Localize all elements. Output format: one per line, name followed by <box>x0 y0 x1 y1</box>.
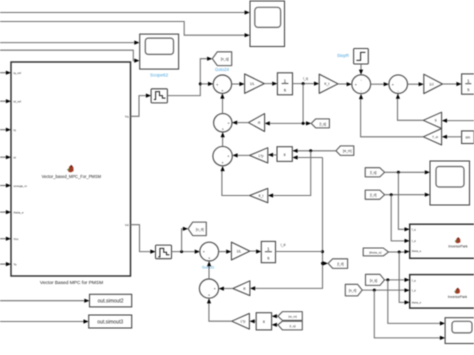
sum 3 (q axis) <box>213 146 232 165</box>
stair generator block (q axis) <box>151 89 167 103</box>
scope Scope (top right) <box>250 1 285 47</box>
wire product to Lp gain <box>268 153 277 157</box>
gain R (q axis) <box>248 114 264 132</box>
svg-text:1/L: 1/L <box>236 250 241 254</box>
svg-text:Vector_based_MPC_For_PMSM: Vector_based_MPC_For_PMSM <box>42 174 102 179</box>
port 6 theta_e <box>0 210 24 214</box>
svg-text:[u_d]: [u_d] <box>349 289 356 293</box>
wire R gain to sum2 <box>232 121 248 125</box>
svg-text:Goto24: Goto24 <box>215 67 230 72</box>
wire node up to goto [u_d] <box>182 227 189 252</box>
from tag [u_d] <box>345 284 362 296</box>
from tag [i_q] (d axis) <box>278 321 302 330</box>
wire i_q d to product <box>272 323 278 327</box>
svg-text:theta_e: theta_e <box>412 249 422 253</box>
port 7 Vcc <box>0 237 19 241</box>
svg-text:1/J: 1/J <box>429 82 434 86</box>
wire i_d output to trunk <box>276 243 323 251</box>
svg-text:InversePark: InversePark <box>448 295 467 299</box>
svg-text:id: id <box>14 156 17 160</box>
gain 1/L (d axis) <box>231 242 249 260</box>
goto tag [u_d] left <box>188 222 206 236</box>
wire u_d to InversePark2 f_d with node <box>362 288 410 292</box>
integrator 1/s (q axis) <box>277 73 292 95</box>
stair generator block (d axis) <box>156 245 172 259</box>
gain K_t torque <box>319 74 338 93</box>
scope voltages (bottom right) <box>445 318 474 344</box>
svg-text:omega_m: omega_m <box>14 184 28 188</box>
matlab icon inside MPC block <box>67 165 74 173</box>
wire theta_e to InversePark1 with node <box>389 250 410 254</box>
wire to Scope top input1 <box>0 10 250 14</box>
svg-text:f_q: f_q <box>412 228 417 232</box>
gain L*p (d axis) <box>232 313 250 329</box>
wire sum to gain 1/L q <box>232 82 245 86</box>
product block x (q axis) <box>277 147 292 162</box>
wire mech sum2 to gain 1/J <box>408 82 424 86</box>
wire i_q down to R gain and goto <box>265 84 312 126</box>
junction node on vq line <box>199 82 213 86</box>
sum 2 (d axis) <box>199 279 218 298</box>
subsystem InversePark1 <box>410 224 474 258</box>
goto tag Goto24 [u_q] <box>212 52 231 72</box>
wire stair to node and up to Goto24 <box>167 57 212 96</box>
svg-text:i_d: i_d <box>280 243 285 247</box>
wire u_q down to bottom scope <box>388 280 445 326</box>
svg-text:T_di: T_di <box>432 135 438 139</box>
wire R d to sum d2 <box>219 287 233 291</box>
svg-text:InversePark: InversePark <box>448 245 467 249</box>
from tag [w_m] (q axis) <box>336 146 354 156</box>
svg-text:f_d: f_d <box>412 239 417 243</box>
step block StepR <box>337 49 368 65</box>
gain 1/J <box>424 74 443 93</box>
wire w_m node down to K_t emf gain <box>268 151 311 198</box>
svg-text:K_t: K_t <box>259 194 264 198</box>
from tag [i_d] right <box>365 190 384 199</box>
svg-text:1/L: 1/L <box>250 82 255 86</box>
svg-text:[i_q]: [i_q] <box>290 324 296 328</box>
port 2 id_ref <box>0 99 21 103</box>
svg-text:theta_e: theta_e <box>412 301 422 305</box>
wire product d to Lp d <box>250 319 257 323</box>
svg-text:StepR: StepR <box>337 53 349 58</box>
output port Vd label <box>125 223 129 227</box>
goto tag [i_d] <box>328 259 348 269</box>
wire w_m d to product <box>272 314 278 318</box>
svg-text:out.simout2: out.simout2 <box>98 299 124 305</box>
wire i_d down into InversePark1 f_d <box>391 195 410 243</box>
svg-text:[w_m]: [w_m] <box>343 149 352 153</box>
svg-text:K_t: K_t <box>324 82 329 86</box>
scope Scope62 <box>140 34 179 77</box>
wire to Scope top input2 <box>0 22 250 38</box>
integrator 1/s (mech) <box>462 74 474 94</box>
svg-text:[w_m]: [w_m] <box>288 315 296 319</box>
product block x (d axis) <box>256 313 271 330</box>
wire StepR down to mech sum1 <box>359 64 363 75</box>
wire i_q with node <box>293 76 320 85</box>
branch to goto [i_d] <box>323 261 329 265</box>
port 3 iq <box>0 128 16 132</box>
wire sum d1 to gain 1/L d <box>219 250 232 254</box>
svg-text:theta_e: theta_e <box>14 210 24 214</box>
output port Vq label <box>125 115 129 119</box>
sum 2 (q axis) <box>214 114 232 132</box>
wire stair d to sum with node <box>172 250 200 254</box>
svg-text:f_q: f_q <box>412 279 417 283</box>
svg-text:[theta_e]: [theta_e] <box>369 250 381 254</box>
wire to Scope62 input2 <box>0 50 140 63</box>
wire gain to integrator d <box>250 249 261 253</box>
svg-text:Vcc: Vcc <box>14 237 20 241</box>
svg-text:Ts: Ts <box>14 262 18 266</box>
sum mech 2 <box>389 75 408 94</box>
to-workspace block out.simout3 <box>89 315 132 328</box>
MPC block name label below <box>40 280 103 286</box>
wire i_d tag to scope with node <box>385 193 430 197</box>
from tag [theta_e] <box>363 248 388 256</box>
wire u_q to InversePark2 f_q with node <box>385 278 410 282</box>
port 4 id <box>0 155 16 159</box>
wire 1/J to integrator <box>443 82 462 86</box>
svg-text:iq_ref: iq_ref <box>14 71 22 75</box>
wire i_q down into InversePark1 f_q <box>398 172 409 231</box>
wire gain b to mech sum2 bottom <box>396 94 424 121</box>
from tag [w_m] (d axis) <box>278 312 302 321</box>
vertical i_d trunk wire <box>250 158 324 291</box>
gain L*p (q axis) <box>250 148 268 163</box>
port 5 omega_m <box>0 183 27 187</box>
wire Lp d to sum d2 bottom <box>207 298 232 321</box>
sum mech 1 <box>352 75 371 94</box>
wire to out.simout3 <box>0 319 89 323</box>
MPC block title text <box>42 174 102 179</box>
to-workspace block out.simout2 <box>90 294 132 307</box>
wire sum d2 up to sum d1 <box>207 261 211 279</box>
svg-text:[u_q]: [u_q] <box>221 57 229 61</box>
gain T_dist <box>423 129 441 146</box>
wire T_dist to mech sum1 bottom <box>359 94 423 137</box>
svg-text:out.simout3: out.simout3 <box>97 319 123 325</box>
wire to Scope62 input1 <box>0 41 140 45</box>
svg-text:Vd: Vd <box>125 223 129 227</box>
integrator 1/s (d axis) <box>261 241 275 262</box>
svg-text:id_ref: id_ref <box>14 100 22 104</box>
wire Lp gain to sum3 <box>232 153 249 157</box>
svg-text:iq: iq <box>14 128 17 132</box>
wire theta_e down to InversePark2 <box>399 252 410 305</box>
svg-text:[i_q]: [i_q] <box>370 171 376 175</box>
wire K_t emf to sum3 bottom <box>221 166 250 196</box>
wire sum3 up to sum2 <box>221 132 225 146</box>
svg-text:[i_q]: [i_q] <box>320 122 326 126</box>
wire omega feedback into gain b <box>442 119 474 123</box>
svg-text:f_d: f_d <box>412 289 417 293</box>
wire Vd from MPC to stair block d <box>131 225 156 254</box>
port 8 Ts <box>0 262 17 266</box>
sum Add (q axis top) <box>213 75 231 93</box>
from tag [i_q] right <box>365 168 384 177</box>
wire to out.simout2 <box>0 299 90 303</box>
goto tag [i_q] <box>311 119 329 128</box>
wire w_m to product input1 with node <box>292 149 336 153</box>
wire i_q tag to scope with node <box>385 170 430 174</box>
svg-text:[i_d]: [i_d] <box>370 193 376 197</box>
svg-text:Scope62: Scope62 <box>150 73 169 78</box>
svg-text:Vector Based MPC for PMSM: Vector Based MPC for PMSM <box>40 280 103 286</box>
wire mech sum1 to sum2 <box>371 82 389 86</box>
port 1 iq_ref <box>0 71 21 75</box>
wire sum2 up to sum1 <box>220 93 224 113</box>
sum 1 (d axis) with blue name <box>200 242 219 269</box>
svg-text:L*p: L*p <box>241 320 246 324</box>
svg-text:1: 1 <box>284 78 287 83</box>
gain 1/L (q axis) <box>245 74 265 94</box>
svg-text:L*p: L*p <box>259 154 264 158</box>
gain R (d axis) <box>233 281 250 296</box>
subsystem block Vector_based_MPC_For_PMSM <box>11 62 131 276</box>
svg-text:i_q: i_q <box>303 76 308 80</box>
svg-text:[i_d]: [i_d] <box>337 262 343 266</box>
from tag [u_q] <box>366 274 385 285</box>
wire Vq from MPC to stair block <box>131 94 152 117</box>
svg-text:sin: sin <box>466 136 471 140</box>
svg-text:Vq: Vq <box>125 115 129 119</box>
svg-text:[u_q]: [u_q] <box>370 278 377 282</box>
subsystem InversePark2 <box>410 275 474 309</box>
wire K_t to mech sum <box>338 82 352 86</box>
svg-text:b: b <box>435 119 437 123</box>
svg-text:[u_d]: [u_d] <box>196 227 204 231</box>
wire sin to gain T_dist <box>442 135 462 139</box>
wire u_d down to bottom scope <box>374 290 445 340</box>
sin block <box>462 131 474 144</box>
scope currents (right middle) <box>430 161 470 205</box>
wire i_d feedback to product input2 (q axis) <box>292 155 322 159</box>
gain b <box>423 112 441 128</box>
wire gain to integrator q <box>264 82 277 86</box>
gain K_t emf <box>250 188 268 202</box>
